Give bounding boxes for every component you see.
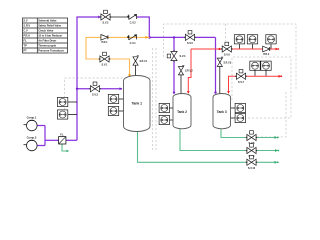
- svg-text:Solenoid Valve: Solenoid Valve: [38, 19, 57, 23]
- svg-text:S.V.6: S.V.6: [224, 54, 230, 57]
- svg-text:S.V: S.V: [23, 19, 27, 23]
- svg-text:S.V.5: S.V.5: [187, 42, 193, 45]
- svg-text:Thermocouple: Thermocouple: [38, 44, 56, 48]
- svg-text:C.V.1: C.V.1: [130, 42, 137, 45]
- svg-text:C.V.2: C.V.2: [130, 22, 137, 25]
- svg-text:Pressure Transducer: Pressure Transducer: [38, 49, 64, 53]
- svg-text:TP: TP: [23, 44, 27, 48]
- svg-text:S.V.10: S.V.10: [248, 167, 256, 170]
- svg-text:S.V.1: S.V.1: [102, 64, 108, 67]
- svg-text:S.V.3: S.V.3: [92, 93, 98, 96]
- svg-text:F.L: F.L: [23, 39, 27, 43]
- svg-text:Tank 1: Tank 1: [132, 102, 143, 106]
- svg-text:Safety Relief Valve: Safety Relief Valve: [38, 24, 61, 28]
- svg-text:S.V.7: S.V.7: [238, 81, 244, 84]
- svg-text:Tank 2: Tank 2: [177, 110, 187, 114]
- svg-text:P.R.U: P.R.U: [23, 34, 30, 38]
- svg-text:Air Filter Dryer: Air Filter Dryer: [38, 39, 56, 43]
- svg-text:S.R.V: S.R.V: [23, 24, 30, 28]
- svg-text:Comp.1: Comp.1: [27, 116, 37, 120]
- svg-text:P.R.1: P.R.1: [102, 41, 109, 44]
- svg-text:Tank 3: Tank 3: [217, 110, 227, 114]
- svg-text:Check Valve: Check Valve: [38, 29, 54, 33]
- svg-text:P.R.2: P.R.2: [263, 53, 270, 56]
- svg-text:Comp.2: Comp.2: [27, 136, 37, 140]
- svg-text:F.L: F.L: [60, 134, 64, 137]
- svg-text:PT: PT: [23, 49, 27, 53]
- svg-text:10 to 6 bar Reducer: 10 to 6 bar Reducer: [38, 34, 62, 38]
- svg-text:S.V.4: S.V.4: [180, 55, 186, 58]
- svg-text:S.R.V.1: S.R.V.1: [140, 61, 148, 63]
- svg-text:S.R.V.3: S.R.V.3: [224, 62, 232, 64]
- svg-text:S.R.V.2: S.R.V.2: [185, 71, 193, 73]
- svg-text:C.V: C.V: [23, 29, 28, 33]
- svg-text:S.V.2: S.V.2: [103, 22, 109, 25]
